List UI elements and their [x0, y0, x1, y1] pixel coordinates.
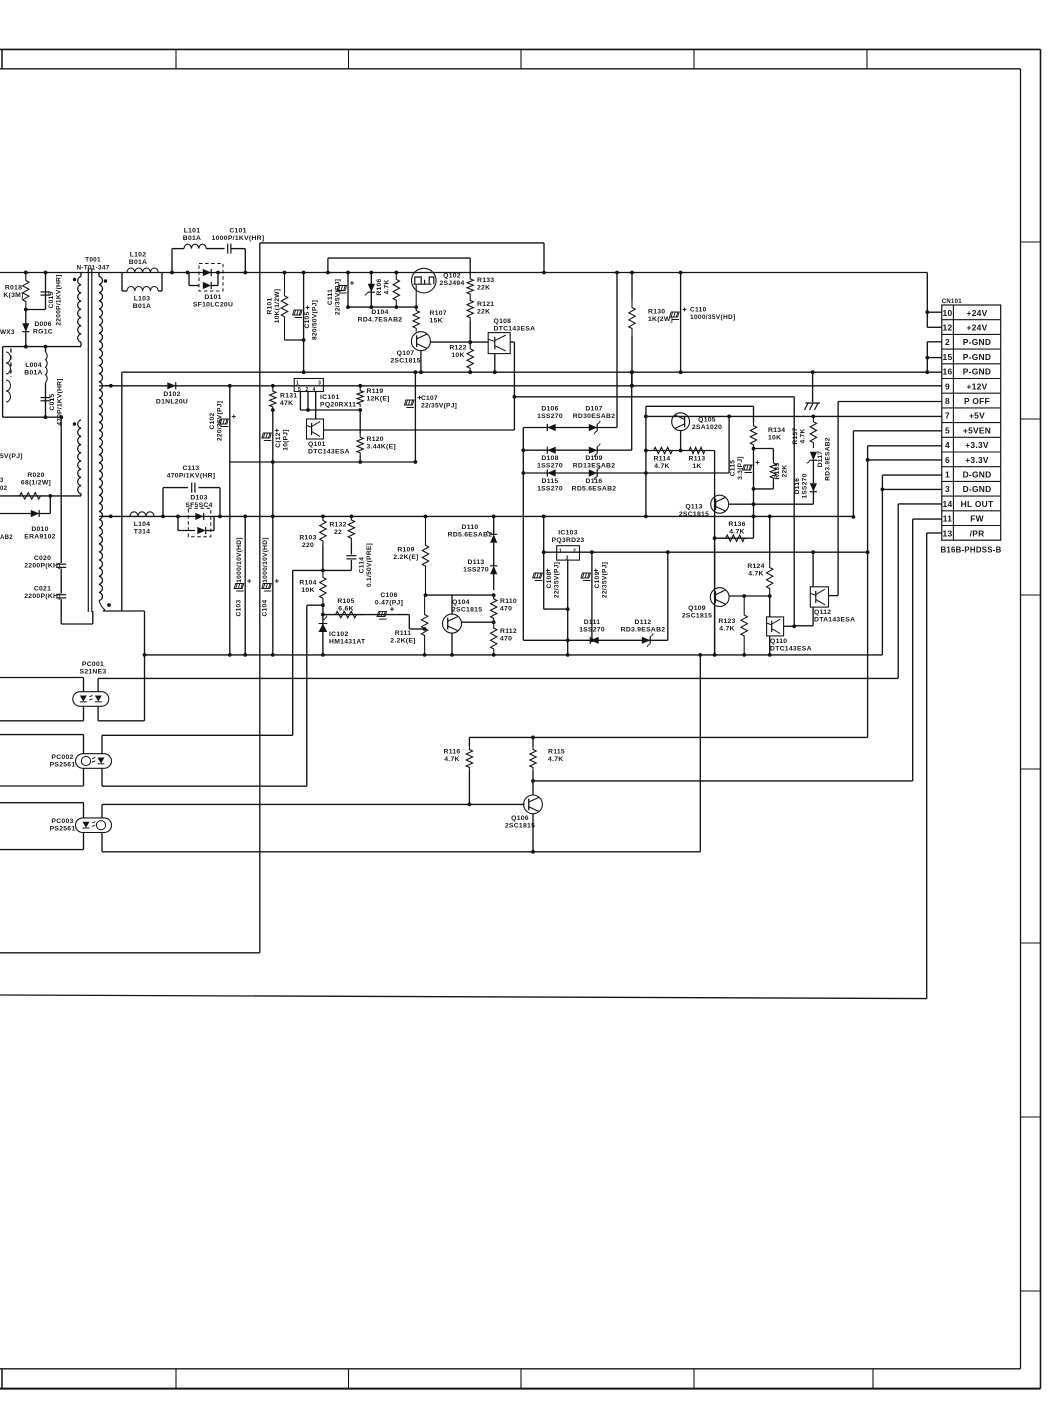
zener D107 — [589, 424, 597, 431]
svg-text:L104: L104 — [134, 521, 151, 528]
wire line C y=462 — [230, 461, 416, 463]
svg-text:1000/10V(HD]: 1000/10V(HD] — [262, 537, 269, 583]
wire: PC002 top-right to R103/R104 node — [102, 734, 293, 736]
wire: PC002 bottom-left — [0, 785, 84, 787]
svg-text:2SC1815: 2SC1815 — [452, 606, 482, 613]
svg-text:4.7K: 4.7K — [548, 756, 563, 763]
svg-text:470: 470 — [500, 605, 512, 612]
resistor R110 — [491, 595, 497, 622]
svg-text:4.7K: 4.7K — [444, 756, 459, 763]
inductor L101 — [171, 249, 173, 273]
svg-text:C(12: C(12 — [275, 432, 282, 447]
wire C108 corner — [544, 608, 568, 610]
resistor R133 — [469, 258, 471, 276]
transistor Q112 (DTA143ESA) — [812, 552, 814, 587]
svg-text:R111: R111 — [395, 630, 412, 637]
diode D102 — [167, 382, 175, 389]
wire: rail G drop to emitter line — [699, 655, 701, 852]
diode D101 dual (dashed box) — [199, 264, 223, 292]
wire R103/R132 junction y=570.4 — [322, 545, 324, 570]
svg-text:C107: C107 — [421, 395, 438, 402]
svg-text:R114: R114 — [654, 455, 671, 462]
svg-text:Q108: Q108 — [494, 318, 512, 325]
inductor L104 — [130, 512, 154, 517]
wire: pin8 P OFF route — [838, 401, 942, 403]
resistor R107 — [413, 307, 419, 332]
svg-text:PC003: PC003 — [51, 818, 73, 825]
svg-text:10K: 10K — [451, 352, 464, 359]
svg-text:2SC1815: 2SC1815 — [505, 822, 535, 829]
svg-text:D111: D111 — [584, 619, 601, 626]
svg-text:D108: D108 — [541, 455, 558, 462]
svg-text:Q102: Q102 — [443, 272, 461, 279]
svg-text:D101: D101 — [204, 294, 221, 301]
svg-text:11: 11 — [943, 514, 952, 524]
svg-text:R132: R132 — [329, 521, 346, 528]
svg-text:C110: C110 — [690, 306, 707, 313]
svg-text:2200P/1KV(HR]: 2200P/1KV(HR] — [55, 274, 62, 325]
wire: secondary +5V raw rail y=516.4 — [103, 515, 853, 517]
wire box left — [2, 347, 4, 418]
svg-text:P OFF: P OFF — [964, 396, 990, 406]
wire: HL OUT route pin14 — [898, 503, 942, 505]
svg-text:2SJ494: 2SJ494 — [439, 280, 464, 287]
svg-text:P-GND: P-GND — [963, 367, 991, 377]
svg-text:R105: R105 — [337, 598, 354, 605]
svg-text:9: 9 — [945, 381, 950, 391]
wire Q108 emitter to rail — [494, 354, 496, 373]
svg-text:C101: C101 — [229, 227, 246, 234]
svg-text:16: 16 — [943, 367, 953, 377]
capacitor C114 — [350, 542, 352, 555]
capacitor C105 — [303, 273, 305, 373]
svg-text:68(1/2W]: 68(1/2W] — [21, 479, 51, 486]
capacitor C109 — [591, 552, 593, 640]
svg-text:Q110: Q110 — [770, 638, 787, 645]
svg-text:RD4.7ESAB2: RD4.7ESAB2 — [358, 316, 403, 323]
zener D104 — [370, 273, 372, 308]
svg-text:4.7K: 4.7K — [719, 625, 734, 632]
diode D006 — [25, 310, 27, 347]
wire: +3.3V route pins 4/6 — [868, 445, 942, 447]
svg-text:C015: C015 — [49, 394, 56, 411]
svg-text:R124: R124 — [747, 563, 764, 570]
wire Q104 collector to D113 node — [462, 621, 494, 623]
transformer primary winding lower — [78, 420, 81, 494]
svg-text:C015: C015 — [48, 292, 55, 309]
svg-text:Q109: Q109 — [688, 605, 706, 612]
capacitor C112 — [272, 410, 274, 462]
svg-text:IC103: IC103 — [558, 529, 578, 536]
svg-text:R123: R123 — [718, 618, 735, 625]
svg-text:22/35V(PJ]: 22/35V(PJ] — [421, 402, 457, 409]
svg-text:10K: 10K — [768, 434, 781, 441]
svg-text:C104: C104 — [262, 600, 269, 617]
resistor R115 — [532, 737, 534, 746]
svg-text:C111: C111 — [327, 289, 334, 305]
svg-text:C113: C113 — [183, 465, 200, 472]
wire IC103 pin3 down — [567, 560, 569, 655]
svg-text:Q112: Q112 — [814, 609, 831, 616]
svg-text:HM1431AT: HM1431AT — [329, 638, 366, 645]
resistor R124 — [769, 518, 771, 560]
svg-text:4: 4 — [945, 440, 950, 450]
svg-text:13: 13 — [943, 528, 953, 538]
transistor Q110 (DTC143ESA) — [769, 596, 771, 617]
svg-text:C103: C103 — [236, 600, 243, 617]
resistor R132 — [348, 516, 354, 542]
svg-text:22: 22 — [334, 529, 342, 536]
svg-text:1SS270: 1SS270 — [579, 626, 605, 633]
wire: long vertical x=259.8 (243 to 952.8) — [259, 243, 261, 953]
wire: bottom row y=952.8 — [0, 952, 260, 954]
svg-text:22K: 22K — [477, 284, 490, 291]
wire: /PR route pin13 — [927, 532, 942, 534]
svg-text:C102: C102 — [209, 413, 216, 430]
optocoupler PC002 — [83, 735, 85, 754]
IC U IC103 PQ3RD23 — [557, 546, 580, 560]
svg-text:820/50V(PJ]: 820/50V(PJ] — [311, 300, 318, 340]
transistor Q105 — [672, 413, 690, 431]
svg-text:22/35V(PJ]: 22/35V(PJ] — [601, 562, 608, 598]
resistor R113 — [686, 447, 708, 453]
phase dots — [73, 278, 76, 281]
svg-text:D112: D112 — [635, 619, 652, 626]
svg-text:4.7K: 4.7K — [383, 279, 390, 294]
resistor R122 — [469, 321, 471, 345]
svg-text:10(PJ]: 10(PJ] — [282, 429, 289, 450]
svg-text:PQ3RD23: PQ3RD23 — [552, 537, 585, 544]
wire x=631.7 from +12V to D108 row — [631, 372, 633, 450]
wire: P OFF rail y=396.6 — [514, 396, 794, 398]
svg-text:L004: L004 — [25, 362, 42, 369]
wire C115 node down — [753, 489, 755, 538]
svg-text:4.7K: 4.7K — [799, 428, 806, 443]
svg-text:R120: R120 — [367, 436, 384, 443]
svg-text:B01A: B01A — [129, 259, 148, 266]
transistor Q101 (DTC143ESA) — [307, 419, 324, 439]
secondary tap stubs — [99, 385, 111, 387]
node L102 out — [170, 271, 174, 275]
svg-text:R134: R134 — [768, 427, 785, 434]
svg-text:D107: D107 — [585, 405, 602, 412]
svg-text:Q101: Q101 — [308, 441, 326, 448]
svg-text:2.2K(E]: 2.2K(E] — [390, 637, 415, 644]
svg-text:10K: 10K — [301, 587, 314, 594]
svg-text:1SS270: 1SS270 — [463, 566, 489, 573]
svg-text:12K(E]: 12K(E] — [367, 395, 390, 402]
svg-text:1: 1 — [559, 549, 562, 555]
capacitor C104 — [272, 462, 274, 655]
svg-text:22/35V(PJ]: 22/35V(PJ] — [334, 279, 341, 315]
diode D010 — [0, 513, 50, 515]
svg-text:14: 14 — [943, 499, 953, 509]
node: transformer tap for D102 — [109, 384, 113, 388]
svg-text:T001: T001 — [85, 257, 101, 264]
svg-text:B01A: B01A — [183, 235, 202, 242]
wire: transformer return to PC001 — [121, 372, 123, 611]
svg-text:D116: D116 — [586, 478, 603, 485]
svg-text:Q106: Q106 — [511, 815, 529, 822]
svg-text:HL OUT: HL OUT — [961, 499, 994, 509]
svg-text:R112: R112 — [500, 628, 517, 635]
zener D109 — [589, 447, 597, 454]
resistor R137 — [812, 415, 816, 419]
svg-text:D1NL20U: D1NL20U — [156, 398, 188, 405]
svg-text:D117: D117 — [817, 451, 824, 468]
svg-text:R122: R122 — [449, 344, 466, 351]
wire: HL OUT long line y=678.4 — [98, 677, 898, 679]
wire: +5VEN route pin5 — [853, 430, 941, 432]
svg-text:SF5SC4: SF5SC4 — [185, 502, 212, 509]
wire: +24V main rail y=272.5 — [0, 272, 927, 274]
capacitor C106 — [377, 612, 387, 617]
svg-text:IC102: IC102 — [329, 631, 349, 638]
wire C102 chain x=229.8 — [229, 386, 231, 655]
node +5V to D115 row — [727, 415, 731, 419]
wire: FW route pin11 — [913, 518, 942, 520]
svg-text:1K: 1K — [692, 463, 701, 470]
svg-text:1SS270: 1SS270 — [801, 473, 808, 498]
resistor R103 — [320, 516, 326, 545]
resistor R104 — [320, 570, 326, 605]
capacitor C015 2200P — [45, 273, 47, 310]
wire: P-GND pins 2/15 — [926, 342, 928, 372]
wire: PC003 bottom-left — [0, 849, 84, 851]
svg-text:RD13ESAB2: RD13ESAB2 — [573, 462, 616, 469]
resistor R020 — [0, 495, 50, 497]
optocoupler PC003 — [83, 803, 85, 818]
wire: PC001 bottom-right to ground return — [98, 720, 144, 722]
svg-text:3.3(PJ]: 3.3(PJ] — [737, 456, 744, 480]
svg-text:D110: D110 — [462, 524, 479, 531]
svg-text:DTC143ESA: DTC143ESA — [494, 325, 536, 332]
wire: D-GND rail G y=654.9 — [145, 654, 883, 656]
svg-text:C021: C021 — [34, 585, 51, 592]
svg-text:4.7K: 4.7K — [748, 570, 763, 577]
diode D115 — [523, 472, 729, 474]
wire: P-GND rail A y=372.2 — [122, 371, 942, 373]
node: transformer tap L104 — [109, 515, 113, 519]
svg-text:0.47(PJ]: 0.47(PJ] — [375, 599, 403, 606]
transistor Q107 — [411, 332, 430, 351]
diode D110 — [493, 516, 495, 534]
svg-text:2.2K(E]: 2.2K(E] — [393, 554, 418, 561]
svg-text:L102: L102 — [130, 251, 147, 258]
optocoupler PC001 — [83, 678, 85, 692]
wire: top loop y=243 — [260, 242, 544, 244]
svg-text:C020: C020 — [34, 555, 51, 562]
wire R113 to Q113 — [714, 451, 716, 656]
svg-text:RD5.6ESAB2: RD5.6ESAB2 — [448, 531, 493, 538]
svg-text:D006: D006 — [34, 321, 51, 328]
resistor R121 — [467, 297, 473, 321]
wire Q109 collector row y=596 — [729, 595, 770, 597]
svg-text:P-GND: P-GND — [963, 352, 991, 362]
svg-text:IC101: IC101 — [320, 394, 340, 401]
svg-text:12: 12 — [943, 323, 953, 333]
svg-text:R135: R135 — [774, 463, 781, 480]
capacitor C113 loop — [162, 488, 164, 517]
svg-text:FW: FW — [970, 514, 984, 524]
transistor Q104 — [443, 614, 462, 633]
svg-text:10: 10 — [943, 308, 953, 318]
resistor R109 — [422, 516, 428, 595]
svg-text:15: 15 — [943, 352, 953, 362]
capacitor C103 — [244, 516, 246, 655]
svg-text:D115: D115 — [542, 478, 559, 485]
svg-text:8: 8 — [945, 396, 950, 406]
svg-text:R113: R113 — [689, 455, 706, 462]
svg-text:+3.3V: +3.3V — [965, 455, 989, 465]
wire Q113 collector row — [729, 503, 814, 505]
svg-text:Q113: Q113 — [685, 503, 702, 510]
wire: +24V feed to CN101 pins 10/12 — [926, 273, 928, 328]
chassis mark 777 — [812, 372, 814, 402]
svg-text:3: 3 — [945, 484, 950, 494]
svg-text:2200P(KH]: 2200P(KH] — [24, 562, 61, 569]
svg-text:RD3.9ESAB2: RD3.9ESAB2 — [621, 626, 666, 633]
svg-text:DTC143ESA: DTC143ESA — [770, 645, 812, 652]
svg-text:5V(PJ]: 5V(PJ] — [0, 453, 23, 460]
dashed aux winding box — [10, 349, 12, 378]
wire source row y=307.1 — [348, 306, 416, 308]
wire R101 bottom — [285, 339, 304, 341]
wire R020 to winding — [50, 495, 81, 497]
svg-text:4.7K: 4.7K — [654, 463, 669, 470]
svg-text:R109: R109 — [397, 546, 414, 553]
svg-text:RD3.9ESAB2: RD3.9ESAB2 — [824, 437, 831, 481]
svg-text:D103: D103 — [190, 494, 207, 501]
transformer T001 core — [87, 268, 89, 612]
svg-text:RD30ESAB2: RD30ESAB2 — [573, 413, 616, 420]
svg-text:2: 2 — [945, 337, 950, 347]
inductor L004 — [45, 346, 47, 352]
svg-text:47K: 47K — [280, 400, 293, 407]
svg-text:P-GND: P-GND — [963, 337, 991, 347]
svg-text:+5V: +5V — [969, 411, 985, 421]
svg-text:2SC1815: 2SC1815 — [682, 612, 712, 619]
transistor Q108 (DTC143ESA) — [488, 333, 510, 354]
svg-text:PS2561: PS2561 — [50, 825, 76, 832]
capacitor C021 — [60, 569, 62, 594]
svg-text:1SS270: 1SS270 — [537, 462, 563, 469]
svg-text:CN101: CN101 — [942, 299, 962, 305]
svg-text:0.1/50V(PRE]: 0.1/50V(PRE] — [366, 543, 373, 587]
svg-text:PS2561: PS2561 — [50, 761, 76, 768]
svg-text:1: 1 — [945, 470, 950, 480]
svg-text:22K: 22K — [781, 465, 788, 478]
wire D112 row up to +3.3V — [667, 552, 669, 640]
svg-text:PQ20RX11: PQ20RX11 — [320, 401, 356, 408]
svg-text:R133: R133 — [477, 277, 494, 284]
svg-text:R130: R130 — [648, 308, 665, 315]
diode D111 — [523, 639, 668, 641]
svg-text:3: 3 — [318, 381, 321, 387]
wire: PC003 top-right / Q106 base line — [102, 803, 525, 805]
wire Q105 block top — [646, 405, 754, 407]
svg-text:3: 3 — [0, 478, 4, 484]
wire Q110 base junction — [784, 625, 795, 627]
svg-text:B01A: B01A — [24, 369, 43, 376]
svg-text:+12V: +12V — [967, 381, 988, 391]
shunt reg IC102 HM1431AT — [322, 605, 324, 655]
svg-text:1SS270: 1SS270 — [537, 485, 563, 492]
svg-text:C106: C106 — [380, 592, 397, 599]
svg-text:R119: R119 — [367, 388, 384, 395]
svg-text:7: 7 — [945, 411, 950, 421]
diode D106 — [523, 427, 617, 429]
wire: PC001 bottom-left — [0, 720, 84, 722]
svg-text:K(3M]: K(3M] — [3, 292, 23, 299]
wire: PC002 bottom-right to IC102 node — [102, 785, 307, 787]
resistor R131 — [272, 386, 274, 388]
diode D103 dual (dashed box) — [188, 508, 211, 536]
resistor R134 — [753, 406, 755, 422]
wire C106 to R111 — [408, 615, 410, 629]
resistor R135 — [754, 448, 774, 450]
svg-text:Q104: Q104 — [452, 599, 470, 606]
zener D117 — [810, 452, 817, 460]
svg-text:6: 6 — [945, 455, 950, 465]
wire R109 junction to Q104 — [426, 594, 494, 596]
svg-text:R131: R131 — [280, 392, 297, 399]
svg-text:Q107: Q107 — [397, 350, 415, 357]
diode D116b — [812, 461, 814, 484]
transistor Q113 — [711, 495, 729, 513]
svg-text:2SC1815: 2SC1815 — [679, 511, 709, 518]
capacitor C015 470P — [45, 383, 47, 418]
svg-text:C108: C108 — [546, 572, 553, 589]
svg-text:+24V: +24V — [967, 323, 988, 333]
wire x=617 from +24V to D106 row — [616, 273, 618, 428]
svg-text:R018: R018 — [5, 284, 22, 291]
svg-text:R116: R116 — [444, 748, 461, 755]
svg-text:RD5.6ESAB2: RD5.6ESAB2 — [572, 485, 617, 492]
resistor R111 — [421, 595, 427, 655]
svg-text:220/26V(PJ]: 220/26V(PJ] — [216, 401, 223, 441]
svg-text:RG1C: RG1C — [33, 328, 53, 335]
svg-text:470: 470 — [500, 635, 512, 642]
zener D112 — [642, 637, 650, 644]
svg-text:1: 1 — [296, 381, 299, 387]
wire Q107 base row y=342.1 — [430, 341, 488, 343]
svg-text:1000/35V(HD]: 1000/35V(HD] — [690, 314, 736, 321]
resistor R136 — [715, 537, 754, 539]
svg-text:R136: R136 — [728, 521, 745, 528]
wire shield return — [60, 599, 62, 624]
wire box bottom y=417.2 — [3, 416, 62, 418]
svg-text:2SC1815: 2SC1815 — [390, 357, 420, 364]
svg-text:D106: D106 — [541, 405, 558, 412]
zener D116 — [589, 469, 597, 476]
svg-text:D-GND: D-GND — [963, 484, 992, 494]
svg-text:AB2: AB2 — [0, 535, 13, 541]
svg-text:R115: R115 — [548, 748, 565, 755]
svg-text:DTA143ESA: DTA143ESA — [814, 616, 855, 623]
wire: +12V line B y=385.8 — [105, 385, 942, 387]
wire: PC003 top-left — [0, 802, 84, 804]
svg-text:DTC143ESA: DTC143ESA — [308, 448, 350, 455]
svg-text:N-T01-347: N-T01-347 — [76, 265, 109, 272]
inductor L103 — [121, 273, 123, 292]
svg-text:R101: R101 — [267, 298, 274, 315]
svg-text:S21NE3: S21NE3 — [80, 668, 107, 675]
wire: bottom row to /PR y=995.5 — [0, 995, 927, 999]
svg-text:PC002: PC002 — [51, 754, 73, 761]
resistor R123 — [741, 596, 747, 655]
svg-text:+5VEN: +5VEN — [963, 425, 991, 435]
